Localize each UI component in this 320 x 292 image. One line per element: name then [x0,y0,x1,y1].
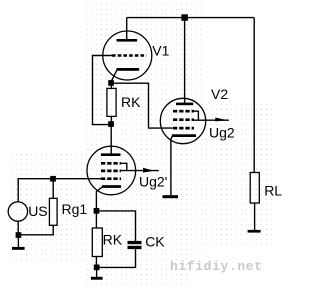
node: US bottom junction [16,232,22,238]
resistor RL [250,173,259,231]
svg-text:V2: V2 [211,86,228,102]
svg-text:RL: RL [264,183,282,199]
wire: cathode node to V2 control grid [111,83,173,128]
wire: V2 plate lead [184,18,186,103]
wire: HT supply top rail [127,17,255,19]
wire: CK bottom to ground node [99,249,136,267]
svg-text:hifidiy.net: hifidiy.net [170,259,263,274]
arrow on Ug2 lead [215,118,228,122]
node: rail junction to V2 plate [181,14,188,20]
V1 grid (dashed) [112,54,146,57]
wire: V3 g3 tie to screen [121,163,127,170]
V2 cathode bar [172,134,196,137]
V2 control grid g1 [173,127,194,130]
arrow on Ug2' lead [143,168,154,173]
node: ground junction [94,265,100,271]
V3 screen grid g2 [101,170,121,173]
svg-text:Rg1: Rg1 [62,201,88,217]
svg-text:Ug2': Ug2' [139,174,167,190]
svg-text:Ug2: Ug2 [209,125,235,141]
node: RK bottom junction [108,121,114,127]
terminal: V2 cathode tap [163,195,179,198]
wire: V2 cathode lead [171,136,173,195]
wire: US bottom lead [17,221,19,233]
svg-text:V1: V1 [152,43,169,59]
V3 suppressor grid g3 [101,162,121,165]
V2 suppressor grid g3 [173,110,194,113]
resistor RK upper [107,83,116,124]
terminal: ground under RK [91,269,103,280]
terminal: ground under US [12,235,25,250]
svg-text:RK: RK [103,231,123,247]
V1 cathode bar [117,68,140,71]
wire: V2 g3 tie to screen [194,111,198,120]
tube V1 envelope [103,31,152,80]
node: Rg1 top junction [50,176,56,182]
node: V3 cathode junction [94,208,100,214]
V3 control grid g1 [101,177,121,180]
wire: V1 cathode lead [111,70,117,82]
wire: V2 screen lead Ug2 [194,119,229,121]
node: V1 cathode junction [108,80,114,86]
wire: V3 screen lead Ug2' [121,170,159,172]
wire: V1 grid to lower RK node [93,56,113,125]
wire: RK bottom to V3 plate [110,124,112,154]
terminal: RL bottom tap [248,230,261,233]
svg-text:US: US [28,203,47,219]
V2 plate bar [176,103,193,106]
wire: cathode node to CK [96,211,135,241]
wire: US bottom to Rg1 bottom [18,225,53,235]
V3 cathode bar [102,185,121,188]
svg-text:CK: CK [145,234,165,250]
svg-text:RK: RK [121,94,141,110]
capacitor CK [128,241,142,249]
wire: right rail down to RL [253,18,255,173]
V2 screen grid g2 [173,118,194,121]
resistor RK lower [92,211,102,267]
resistor Rg1 [49,179,57,226]
V1 plate bar [117,39,138,42]
wire: V1 plate lead [126,18,128,40]
wire: input to V3 grid [18,179,101,202]
source US [8,202,27,221]
tube V3 envelope [87,146,136,195]
wire: V3 cathode lead [96,187,102,209]
V3 plate bar [101,153,121,156]
tube V2 envelope [160,98,205,143]
